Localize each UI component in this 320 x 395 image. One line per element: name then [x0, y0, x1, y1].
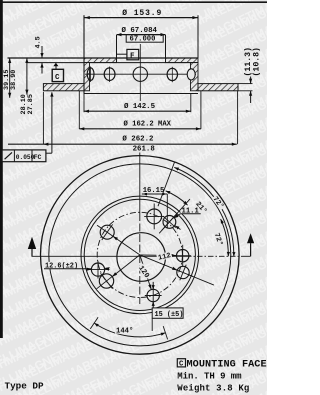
- svg-text:Ø 67.084: Ø 67.084: [122, 26, 158, 35]
- front ring inner circle outer: [81, 196, 199, 314]
- dim 4.5 flange thickness: [41, 46, 43, 58]
- dim Ø153.9 line and text: [84, 17, 198, 19]
- dim 261.8 text: [132, 145, 156, 152]
- arc dim 144 deg: [94, 323, 165, 337]
- section bolt hole ellipse 3: [167, 68, 177, 80]
- radius arrow to bottom bolt hole: [140, 255, 152, 290]
- section center bore circle: [133, 67, 147, 81]
- front vertical centerline: [139, 153, 141, 214]
- dim 11.1 leader: [181, 207, 200, 214]
- section hat right wall hatched: [191, 63, 199, 91]
- arc dim 72 deg upper: [174, 167, 234, 256]
- section wall hole ellipse right: [187, 69, 195, 80]
- label 21 deg: [194, 199, 209, 215]
- radius arrow to upper-left bolt hole: [113, 236, 140, 255]
- svg-text:Ø 162.2 MAX: Ø 162.2 MAX: [124, 119, 172, 128]
- dim 39.15/38.90: [9, 58, 11, 98]
- svg-text:C: C: [55, 74, 60, 82]
- svg-text:67.000: 67.000: [130, 36, 156, 44]
- bolt hole upper-left: [100, 225, 114, 239]
- section hat right outer wall line: [197, 15, 199, 58]
- bolt hole bottom: [147, 289, 159, 301]
- datum C box with leader triangle: [52, 69, 63, 81]
- svg-text:144°: 144°: [116, 327, 133, 336]
- arc dim 21 deg: [166, 191, 188, 205]
- locating hole 11.1: [163, 216, 176, 229]
- front horizontal centerline: [32, 255, 187, 257]
- section hat left outer wall line: [83, 15, 85, 93]
- section bolt hole 2 tick: [109, 67, 111, 83]
- svg-text:Ø 142.5: Ø 142.5: [124, 102, 156, 111]
- dim Ø142.5: [83, 94, 85, 113]
- section bore right wall: [165, 35, 167, 63]
- section centerline: [139, 44, 141, 101]
- svg-text:261.8: 261.8: [133, 146, 156, 154]
- radial extension through locating hole: [159, 199, 190, 233]
- front hub circle: [117, 233, 166, 282]
- section hat left wall hatched: [84, 63, 90, 91]
- arc dim 72 deg lower: [221, 219, 229, 257]
- section flange underside line: [27, 62, 198, 64]
- svg-text:MOUNTING FACE: MOUNTING FACE: [187, 359, 267, 370]
- svg-text:Type DP: Type DP: [5, 380, 44, 391]
- dim 12.6(±2): [44, 262, 79, 269]
- section friction ring left hatched: [43, 84, 84, 91]
- svg-text:Min. TH 9 mm: Min. TH 9 mm: [177, 371, 242, 381]
- page border top edge: [0, 1, 267, 3]
- datum F box with leader: [127, 49, 139, 59]
- svg-text:4.5: 4.5: [35, 36, 43, 48]
- dim Ø262.2: [42, 92, 44, 144]
- page border left edge: [0, 0, 3, 338]
- section ring bottom edge extension right: [238, 90, 253, 92]
- section bolt hole ellipse 1: [87, 68, 94, 81]
- radius arrow 112 to right bolt hole: [140, 254, 177, 257]
- dim 16.15: [142, 193, 168, 195]
- svg-text:0.050: 0.050: [16, 154, 35, 161]
- svg-text:(10.8): (10.8): [251, 47, 261, 76]
- label 120: [137, 263, 151, 279]
- svg-text:38.90: 38.90: [10, 70, 18, 90]
- radius arrow 120 to right pin hole: [140, 255, 178, 270]
- section holes centerline: [85, 73, 196, 75]
- label 72 deg upper: [211, 194, 225, 210]
- label 144 deg: [115, 327, 134, 334]
- bolt hole lower-left: [99, 274, 113, 288]
- dim Ø67.084 line and text: [117, 34, 166, 36]
- section cut marker right arrow: [247, 233, 254, 243]
- svg-text:FC: FC: [34, 154, 42, 161]
- svg-text:F: F: [130, 53, 135, 61]
- dim 15 (±5): [152, 282, 154, 289]
- dim 28.10/27.85: [26, 58, 28, 95]
- front bolt circle dashed: [97, 212, 182, 297]
- dim (11.2)/(10.8) ring thickness: [250, 77, 252, 84]
- bolt hole top: [147, 209, 162, 224]
- radius arrow to lower-left bolt hole: [112, 255, 140, 277]
- dim 67.000 tolerance box: [126, 35, 163, 43]
- svg-text:Ø 153.9: Ø 153.9: [122, 9, 162, 18]
- section hat flange hatched left: [84, 58, 117, 63]
- flatness tolerance frame 0.050 FC: [2, 150, 46, 162]
- radial extension through top bolt hole: [158, 162, 175, 206]
- section hat flange hatched right: [166, 58, 199, 63]
- section cut marker left arrow: [28, 237, 36, 249]
- section friction ring right hatched: [198, 84, 238, 91]
- section mounting face line: [8, 57, 199, 59]
- section bolt hole 1 tick: [90, 67, 92, 83]
- svg-text:27.85: 27.85: [27, 94, 35, 114]
- section bore left wall: [116, 35, 118, 63]
- pin hole left 12.6: [91, 263, 104, 276]
- front view outer circle: [41, 156, 240, 355]
- bolt hole right: [177, 250, 189, 262]
- front ring inner circle inner: [84, 199, 195, 310]
- dim Ø162.2 MAX: [78, 91, 80, 129]
- svg-text:15 (±5): 15 (±5): [155, 311, 184, 319]
- pin hole right 120: [177, 266, 189, 278]
- front view outer circle inner line: [49, 164, 231, 346]
- svg-text:Weight 3.8 Kg: Weight 3.8 Kg: [177, 384, 249, 394]
- svg-text:C: C: [179, 360, 184, 368]
- svg-text:Ø 262.2: Ø 262.2: [122, 135, 153, 144]
- svg-text:16.15: 16.15: [143, 187, 165, 195]
- section hat bottom edge: [84, 93, 198, 95]
- section bolt hole ellipse 2: [104, 68, 115, 81]
- note C mounting face: [177, 359, 185, 367]
- flatness leader arrow to braking surface: [51, 93, 53, 145]
- section ring top edge extension right: [238, 83, 253, 85]
- label 72 deg lower: [213, 231, 224, 247]
- label 112: [156, 251, 172, 261]
- radial extension through right pin hole: [188, 275, 214, 286]
- section bolt hole 3 tick: [171, 67, 173, 82]
